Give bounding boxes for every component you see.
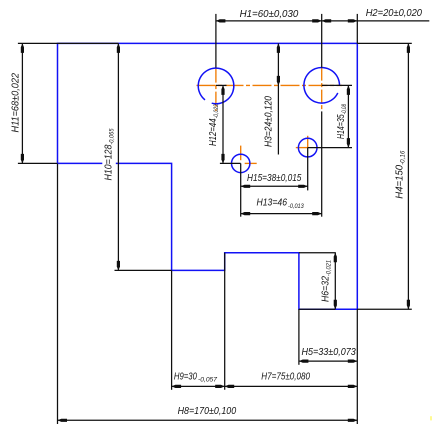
arrows H15 xyxy=(241,185,251,188)
dimension line H6 xyxy=(334,253,336,309)
svg-text:H8=170±0,100: H8=170±0,100 xyxy=(178,406,237,417)
dimension line H15 xyxy=(241,185,308,187)
centerline vertical hole C1 xyxy=(215,68,217,111)
arrows H3 xyxy=(277,43,280,53)
hole C2 (big right) xyxy=(304,68,340,104)
label H12 (rotated) xyxy=(208,104,220,146)
label H11 (rotated) xyxy=(11,73,22,133)
arrows H2 xyxy=(322,19,332,22)
dimension line H5 xyxy=(299,360,357,362)
centerline cross hole C4 horizontal arm xyxy=(245,162,257,164)
dimension line H14 xyxy=(347,85,349,147)
extension line H12 top (from C1 center) xyxy=(216,84,227,86)
extension line H10 bottom xyxy=(115,269,172,271)
arrows H11 xyxy=(21,43,24,53)
arrows H13 xyxy=(241,212,251,215)
hole C1 (big left) xyxy=(198,68,234,104)
dimension line H11 xyxy=(21,43,23,163)
arrows H7 xyxy=(225,385,235,388)
extension line H1 left (hole C1 up) xyxy=(215,14,217,68)
arrows H1 xyxy=(216,19,226,22)
arrows H12 xyxy=(221,85,224,95)
centerline cross hole C3 vertical arm xyxy=(307,136,309,148)
extension line H4 bottom xyxy=(357,308,412,310)
extension line H15/H13 left (C4 center down) xyxy=(240,163,242,216)
arrows H14 xyxy=(347,85,350,95)
dimension line H9+H7 xyxy=(172,385,358,387)
extension line H9 left xyxy=(171,270,173,389)
svg-text:H1=60±0,030: H1=60±0,030 xyxy=(240,9,299,20)
arrows H10 xyxy=(117,43,120,53)
arrows H4 xyxy=(407,43,410,53)
label H3 (rotated) xyxy=(264,96,275,147)
extension line H5/H7/H8 right xyxy=(356,309,358,424)
label H14 (rotated) xyxy=(336,104,348,139)
svg-text:H15=38±0,015: H15=38±0,015 xyxy=(247,173,302,184)
arrows H9 xyxy=(172,385,182,388)
label H10 (rotated) xyxy=(104,128,116,180)
dimension line H12 xyxy=(222,85,224,163)
hole C3 (small right) xyxy=(298,138,317,157)
label H6 (rotated) xyxy=(321,260,333,302)
dimension line H1+H2 xyxy=(216,20,429,22)
extension line H12 bottom (to C4 center) xyxy=(220,162,241,164)
dimension line H3 xyxy=(277,43,279,154)
hole C4 (small left) xyxy=(232,154,250,172)
extension line H5 left xyxy=(298,309,300,365)
extension line H15 right (C3 center down) xyxy=(307,148,309,191)
extension line H11 top / H10 top (black along part top edge) xyxy=(18,42,119,44)
svg-text:H3=24±0,120: H3=24±0,120 xyxy=(264,96,275,147)
extension line H11 bottom xyxy=(18,162,57,164)
svg-text:H13=46: H13=46 xyxy=(257,197,288,208)
extension line left edge down to H8 xyxy=(57,163,59,424)
svg-text:-0,057: -0,057 xyxy=(198,377,217,384)
extension line H4 top xyxy=(357,42,412,44)
extension line H9 right / H7 left (black over notch right edge) xyxy=(224,253,226,390)
arrows H5 xyxy=(299,360,309,363)
part outline xyxy=(58,43,358,309)
extension line H6 bottom (black along part bottom edge) xyxy=(299,308,335,310)
label H4 (rotated) xyxy=(395,150,407,198)
arrows H8 xyxy=(58,419,68,422)
centerline cross hole C4 vertical arm xyxy=(240,146,242,161)
extension line H1 right upper (hole C2 up) xyxy=(321,14,323,68)
svg-text:H9=30: H9=30 xyxy=(174,371,197,382)
dimension line H13 xyxy=(241,213,322,215)
white mask behind H10 label xyxy=(102,124,116,183)
arrows H6 xyxy=(334,253,337,263)
yellow cursor mark bottom right xyxy=(430,416,432,420)
dimension line H8 xyxy=(58,419,358,421)
dimension line H10 xyxy=(117,43,119,270)
svg-text:-0,013: -0,013 xyxy=(288,203,304,210)
dimension line H4 xyxy=(407,43,409,309)
centerline cross hole C3 horizontal arm xyxy=(296,147,308,149)
centerline horizontal through holes C1 C2 xyxy=(197,84,343,86)
svg-text:H2=20±0,020: H2=20±0,020 xyxy=(366,8,423,19)
extension line H2 right (part corner up) xyxy=(356,14,358,44)
extension line H14 bottom (C3 center right) xyxy=(308,147,352,149)
svg-text:H5=33±0,073: H5=33±0,073 xyxy=(302,347,357,358)
svg-text:H7=75±0,080: H7=75±0,080 xyxy=(261,371,310,382)
centerline vertical hole C2 xyxy=(321,68,323,112)
extension line H13 right (hole C2 down) xyxy=(321,111,323,216)
svg-text:H11=68±0,022: H11=68±0,022 xyxy=(11,73,22,133)
extension line H6 top xyxy=(299,252,336,254)
extension line H14 top (C2 center right) xyxy=(322,84,352,86)
